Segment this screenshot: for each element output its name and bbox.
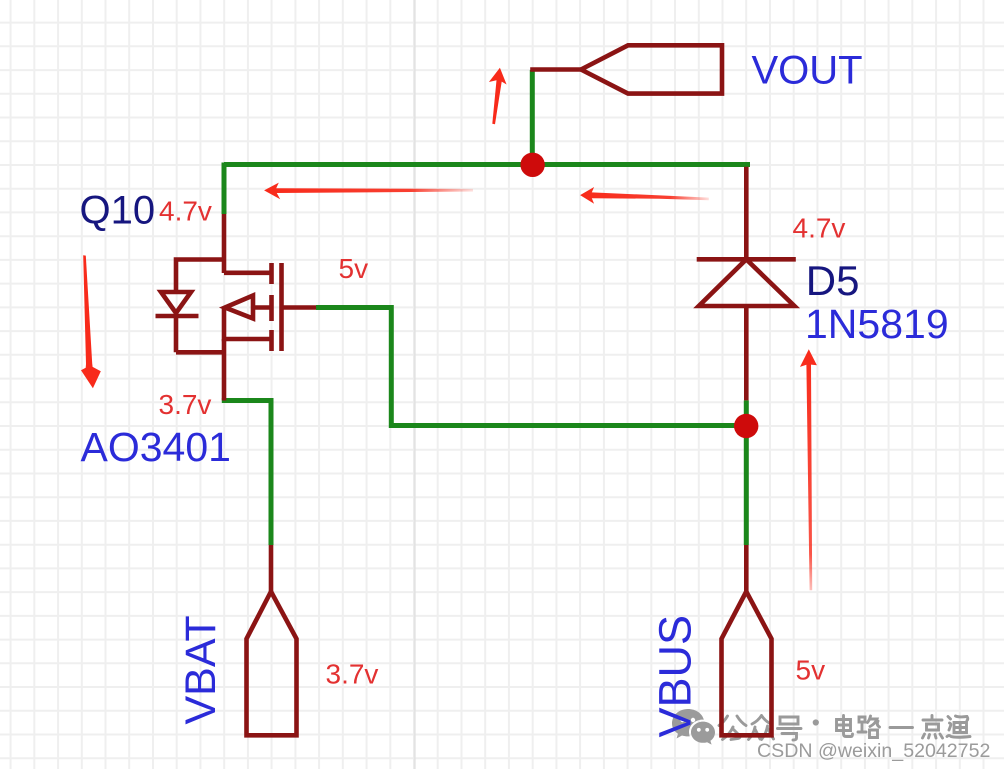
- wire VBUS vertical: [744, 400, 749, 545]
- watermark wechat icon: [672, 709, 715, 745]
- diode D5 anode lead: [744, 306, 749, 400]
- wire VOUT stub: [530, 70, 535, 167]
- junction VOUT node: [520, 153, 544, 177]
- svg-text:Q10: Q10: [80, 189, 156, 233]
- sheet origin axis line: [414, 0, 416, 769]
- annotation arrow left above rail: [264, 183, 473, 200]
- svg-text:5v: 5v: [339, 253, 369, 284]
- junction VBUS node: [734, 414, 758, 438]
- wire Q10 drain to VBAT: [222, 401, 271, 546]
- svg-text:CSDN @weixin_52042752: CSDN @weixin_52042752: [757, 740, 990, 762]
- transistor Q10 drain pin: [222, 339, 227, 401]
- svg-text:AO3401: AO3401: [81, 424, 231, 470]
- connector VOUT body: [581, 45, 722, 93]
- svg-text:VBUS: VBUS: [650, 615, 701, 738]
- char gong: [719, 716, 746, 740]
- connector VBUS body: [722, 592, 772, 736]
- annotation arrow down at Q10: [81, 255, 101, 388]
- annotation arrow up at VOUT: [489, 68, 507, 125]
- connector VBAT pin lead: [269, 545, 274, 592]
- svg-text:4.7v: 4.7v: [793, 213, 846, 244]
- char hao: [778, 717, 802, 740]
- char tong: [947, 716, 970, 737]
- annotation arrow left toward node: [580, 187, 709, 204]
- watermark caption text (simplified CJK strokes): [719, 716, 970, 741]
- wire top rail: [224, 162, 750, 167]
- wire Q10 gate to VBUS net: [316, 308, 746, 426]
- char yi: [890, 726, 913, 729]
- annotation arrow up at D5: [800, 349, 817, 590]
- body diode of Q10: [156, 260, 225, 353]
- svg-text:VOUT: VOUT: [752, 49, 863, 93]
- diode D5 cathode lead: [744, 167, 749, 259]
- char lu: [858, 716, 880, 738]
- svg-text:D5: D5: [806, 257, 860, 304]
- char dian4: [837, 716, 853, 737]
- char dian3: [923, 716, 943, 739]
- wire left drop to Q10 source: [222, 163, 227, 215]
- connector VOUT pin lead: [530, 67, 581, 72]
- svg-text:3.7v: 3.7v: [326, 659, 379, 690]
- char zhong: [749, 716, 774, 740]
- diode D5 body: [697, 259, 796, 306]
- svg-text:1N5819: 1N5819: [805, 301, 949, 347]
- svg-text:4.7v: 4.7v: [159, 196, 212, 227]
- transistor Q10 body: [224, 263, 316, 351]
- svg-text:5v: 5v: [796, 655, 826, 686]
- separator dot: [813, 719, 819, 725]
- transistor Q10 source pin: [222, 214, 227, 273]
- connector VBUS pin lead: [744, 545, 749, 592]
- svg-text:3.7v: 3.7v: [159, 389, 212, 420]
- svg-text:VBAT: VBAT: [177, 615, 225, 724]
- connector VBAT body: [247, 592, 297, 736]
